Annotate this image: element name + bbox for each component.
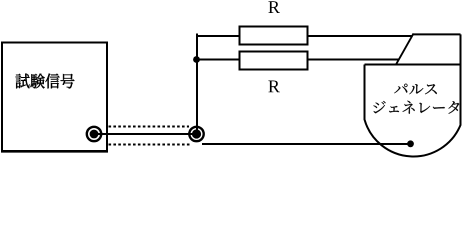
coax shield lower dotted wire xyxy=(109,144,191,146)
label R1 xyxy=(268,1,280,13)
wire J2 up to resistor network xyxy=(196,34,198,135)
label パルス xyxy=(394,84,436,95)
test signal generator box xyxy=(2,43,107,152)
pulse generator body outline xyxy=(365,34,461,156)
pulse generator top face xyxy=(396,34,461,65)
label R2 xyxy=(268,81,280,93)
label 試験信号 (test signal) xyxy=(16,74,75,89)
wire J2 to pulse generator input xyxy=(202,143,410,145)
resistor R1 xyxy=(240,27,308,45)
wire to R2 left xyxy=(196,59,240,61)
pulse generator input terminal dot xyxy=(407,140,414,147)
coax shield upper dotted wire xyxy=(109,126,190,128)
coax center conductor wire xyxy=(94,133,197,135)
wire R1 right to pulse generator xyxy=(307,35,412,37)
connector J2 xyxy=(189,127,203,141)
junction node xyxy=(193,56,200,63)
wire R2 right to pulse generator xyxy=(307,59,399,61)
label ジェネレータ xyxy=(373,101,459,114)
connector J1 (on signal box) xyxy=(87,127,101,141)
wire to R1 left xyxy=(196,35,240,37)
resistor R2 xyxy=(240,52,308,70)
